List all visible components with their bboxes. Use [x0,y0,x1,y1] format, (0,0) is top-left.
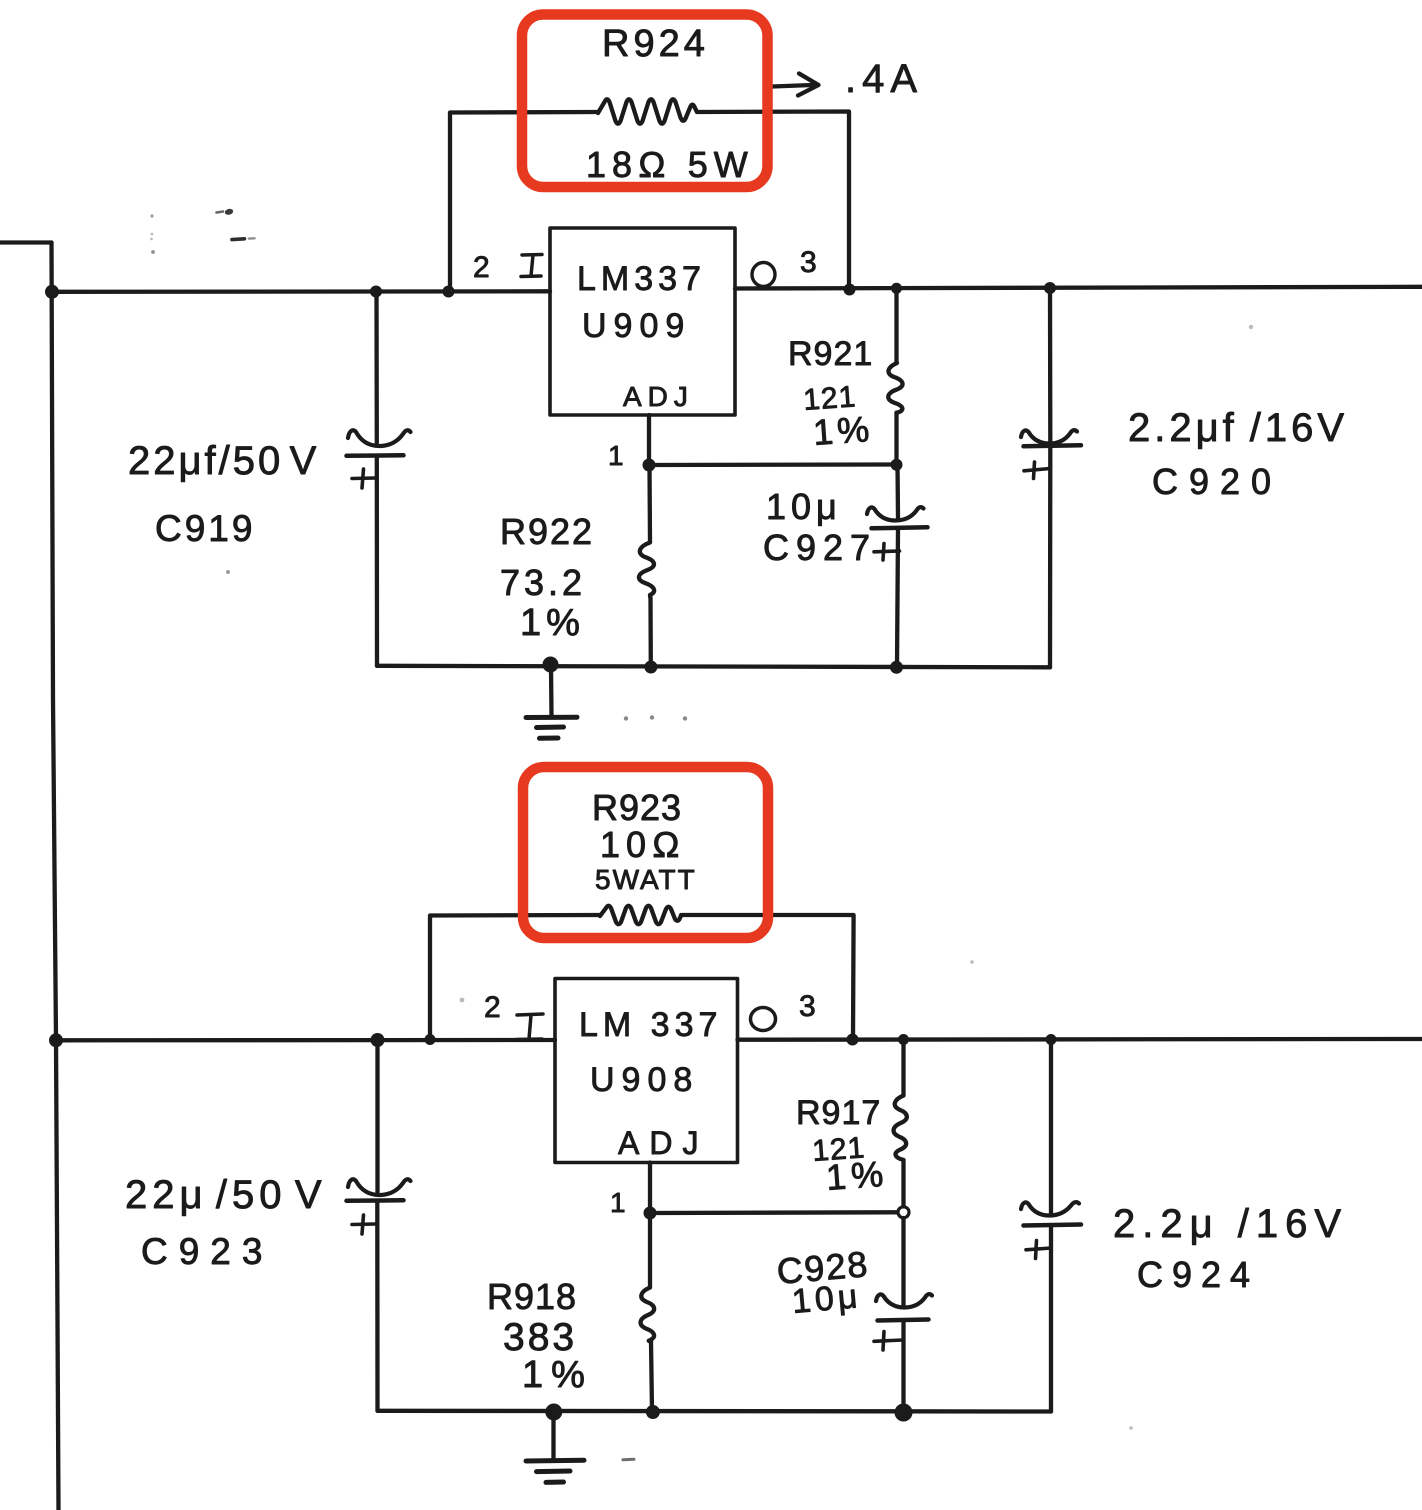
resistor R922 squiggle 73.2 1% [639,543,654,598]
capacitor C927 straight plate [872,527,928,528]
svg-text:C924: C924 [1137,1254,1259,1295]
node: R924 left tap on input bus [443,286,455,298]
label: R918 tolerance 1% [522,1354,593,1396]
node: ground tap lower [545,1404,562,1421]
wire: ADJ to R917/C928 junction [650,1210,898,1215]
node: open circle junction R917/C928 [898,1207,909,1218]
label: C920 designator [1152,461,1282,502]
label: R921 value 121 [802,380,857,417]
wire: lower output bus from U908 pin 3 to right edge [738,1037,1422,1042]
capacitor C919 curved plate [348,430,411,446]
wire: C920 bottom lead [1048,447,1053,668]
label: R923 power 5WATT [595,864,697,895]
svg-text:5WATT: 5WATT [595,864,697,895]
label: C924 value 2.2u/16V [1113,1202,1348,1246]
label: pin 3 lower [799,990,816,1023]
wire: left vertical rail [52,243,59,1510]
label: C919 polarity plus [352,469,375,488]
wire: C927 bottom lead [897,529,898,668]
label: LM337 part number [577,260,706,298]
capacitor C920 straight plate [1024,445,1082,446]
svg-text:18Ω 5W: 18Ω 5W [586,144,754,185]
label: R917 designator [796,1094,881,1132]
node: C919 tap on input bus [370,286,382,298]
highlight box around R924 [522,15,768,188]
svg-text:2: 2 [473,251,490,284]
stray pen marks top left [150,208,254,574]
node: R921 tap on output bus [891,283,902,294]
wire: C927 top lead [895,465,900,518]
label: C923 designator [141,1231,273,1272]
capacitor C920 curved plate [1021,430,1077,443]
wire: output bus from U909 pin 3 to right edge [735,287,1422,289]
node: left rail / input bus junction [45,285,59,299]
node: C927 bottom junction [890,661,903,674]
svg-text:R917: R917 [796,1094,881,1132]
svg-text:R918: R918 [487,1276,577,1317]
node: ground tap [543,657,559,673]
svg-text:2: 2 [484,991,501,1024]
svg-text:LM337: LM337 [577,260,706,298]
label: C928 designator [775,1243,870,1292]
svg-text:10μ: 10μ [766,486,842,527]
op-amp U909 LM337 regulator box [550,228,735,415]
svg-text:C927: C927 [763,527,877,568]
capacitor C928 straight plate [878,1320,929,1321]
wire: R923 right leg down to lower output bus [681,915,854,1040]
label: R924 designator [602,23,709,65]
label: R923 designator [592,787,682,828]
label: R917 value 121 [811,1131,866,1168]
wire: R917 upper lead [901,1040,905,1096]
resistor R923 zigzag 10 ohm 5W [600,906,681,925]
svg-text:1: 1 [608,440,624,471]
label: C924 designator [1137,1254,1259,1295]
capacitor C923 straight plate [347,1198,404,1203]
ground symbol of bottom regulator [526,1412,584,1482]
wire: C919 bottom lead [375,456,380,666]
node: C924 tap on lower output bus [1046,1034,1057,1045]
label: C923 polarity plus [352,1215,375,1234]
label: R922 tolerance 1% [520,602,585,644]
stray dots near top ground [624,715,687,720]
node: ADJ junction pin 1 lower [644,1207,657,1220]
node: left rail / lower input bus junction [49,1033,63,1047]
svg-text:1%: 1% [520,602,585,644]
resistor R924 zigzag 18 ohm 5W [598,99,697,124]
label: C919 value 22uf/50V [128,439,319,483]
wire: lower input bus to U908 pin 2 [56,1038,555,1043]
wire: U908 ADJ stem [648,1163,652,1214]
wire: C920 top lead [1048,288,1053,441]
node: R923 right tap on lower output bus [847,1034,859,1046]
label: pin 2 lower [484,991,501,1024]
label: C928 value 10u [790,1277,862,1321]
label: LM 337 part number [579,1006,722,1044]
label: .4A current value [845,57,923,101]
svg-text:LM 337: LM 337 [579,1006,722,1044]
capacitor C924 curved plate [1021,1202,1079,1215]
node: C928 bottom junction [895,1404,913,1422]
node: ADJ junction pin 1 [643,459,656,472]
label: pin 3 [800,246,817,279]
label: R918 designator [487,1276,577,1317]
node: R922 bottom junction [644,661,657,674]
svg-text:1%: 1% [825,1153,890,1198]
wire: C924 bottom lead [1049,1226,1053,1412]
wire: R921 lower lead [894,413,898,465]
label: R921 tolerance 1% [812,408,875,453]
svg-text:73.2: 73.2 [500,562,586,603]
label: pin O output lower [751,1008,776,1031]
wire: left feed stub into frame [0,240,52,244]
op-amp U908 LM337 regulator box [555,979,738,1163]
wire: C923 top lead [375,1040,379,1192]
node: R921/C927/ADJ junction [891,459,903,471]
capacitor C927 curved plate [867,507,924,520]
node: R924 right tap on output bus [844,284,856,296]
wire: R924 right leg down to output bus [697,112,849,290]
ground symbol of top regulator [526,666,577,738]
capacitor C923 curved plate [348,1179,411,1195]
node: R918 bottom junction [646,1405,660,1419]
svg-text:.4A: .4A [845,57,923,101]
arrow: output current direction [773,74,819,96]
svg-text:ADJ: ADJ [623,381,694,412]
svg-text:R923: R923 [592,787,682,828]
wire: R922 upper lead [647,465,652,542]
svg-text:10Ω: 10Ω [600,824,686,865]
svg-text:1%: 1% [812,408,875,453]
label: pin 1 [608,440,624,471]
faint speckles [460,325,1254,1430]
wire: input bus to U909 pin 2 [52,289,550,294]
label: pin 1 lower [610,1187,626,1218]
resistor R921 squiggle 121 1% [888,363,902,413]
capacitor C928 curved plate [876,1294,932,1307]
node: R923 left tap on lower input bus [425,1034,436,1045]
node: C920 tap on output bus [1044,282,1056,294]
label: C927 value 10u [766,486,842,527]
wire: C928 top lead [901,1218,905,1305]
svg-text:R921: R921 [788,335,873,373]
label: R922 designator [500,511,594,552]
wire: R921 upper lead [894,288,898,363]
svg-text:22μ /50 V: 22μ /50 V [125,1173,327,1217]
wire: C923 bottom lead [375,1201,380,1411]
capacitor C924 straight plate [1024,1225,1082,1226]
wire: ADJ to R921/C927 junction [649,462,897,467]
label: pin 2 [473,251,490,284]
label: R921 designator [788,335,873,373]
node: R917 tap on lower output bus [898,1034,909,1045]
label: R922 value 73.2 [500,562,586,603]
svg-text:C920: C920 [1152,461,1282,502]
svg-text:C919: C919 [155,508,255,549]
svg-text:R924: R924 [602,23,709,65]
node: C923 tap on lower input bus [371,1033,385,1047]
svg-text:22μf/50 V: 22μf/50 V [128,439,319,483]
stray dash near bottom ground [623,1458,634,1462]
label: R917 tolerance 1% [825,1153,890,1198]
svg-text:2.2μf /16V: 2.2μf /16V [1128,406,1348,450]
label: R918 value 383 [503,1316,577,1359]
wire: ground rail of top regulator [377,666,1050,668]
wire: R924 left vertical leg [450,112,598,292]
highlight box around R923 [523,767,768,938]
wire: C928 bottom lead [901,1321,905,1412]
wire: C919 top lead [374,292,379,444]
label: pin O output [752,263,775,287]
svg-text:1: 1 [610,1187,626,1218]
wire: R917 lower lead [901,1160,905,1207]
wire: U909 ADJ stem [647,415,651,465]
label: C924 polarity plus [1026,1241,1051,1259]
wire: C924 top lead [1049,1040,1053,1214]
label: C927 designator [763,527,877,568]
wire: R918 upper lead [648,1213,652,1287]
capacitor C919 straight plate [347,453,404,458]
svg-text:3: 3 [800,246,817,279]
label: C920 value 2.2uf/16V [1128,406,1348,450]
resistor R917 squiggle 121 1% [894,1096,907,1161]
label: ADJ pin name lower [618,1125,708,1161]
svg-text:1%: 1% [522,1354,593,1396]
svg-text:2.2μ /16V: 2.2μ /16V [1113,1202,1348,1246]
wire: ground rail of bottom regulator [378,1409,1052,1414]
wire: R922 lower lead [648,598,653,667]
label: R924 value 18 ohm 5W [586,144,754,185]
svg-text:R922: R922 [500,511,594,552]
resistor R918 squiggle 383 1% [641,1288,655,1343]
svg-text:ADJ: ADJ [618,1125,708,1161]
label: C919 designator [155,508,255,549]
svg-text:10μ: 10μ [790,1277,862,1321]
label: C920 polarity plus [1024,462,1050,479]
label: C927 polarity plus [874,544,900,561]
label: ADJ pin name [623,381,694,412]
svg-text:C923: C923 [141,1231,273,1272]
label: C923 value 22u/50V [125,1173,327,1217]
svg-text:3: 3 [799,990,816,1023]
svg-text:U908: U908 [590,1061,699,1099]
svg-text:U909: U909 [582,307,691,345]
label: pin I input [521,255,542,277]
label: C928 polarity plus [874,1332,903,1351]
svg-text:383: 383 [503,1316,577,1359]
label: U908 designator [590,1061,699,1099]
label: U909 designator [582,307,691,345]
wire: R923 left vertical leg [430,915,600,1040]
label: R923 value 10 ohm [600,824,686,865]
wire: R918 lower lead [651,1342,652,1411]
label: pin I input lower [516,1014,543,1040]
